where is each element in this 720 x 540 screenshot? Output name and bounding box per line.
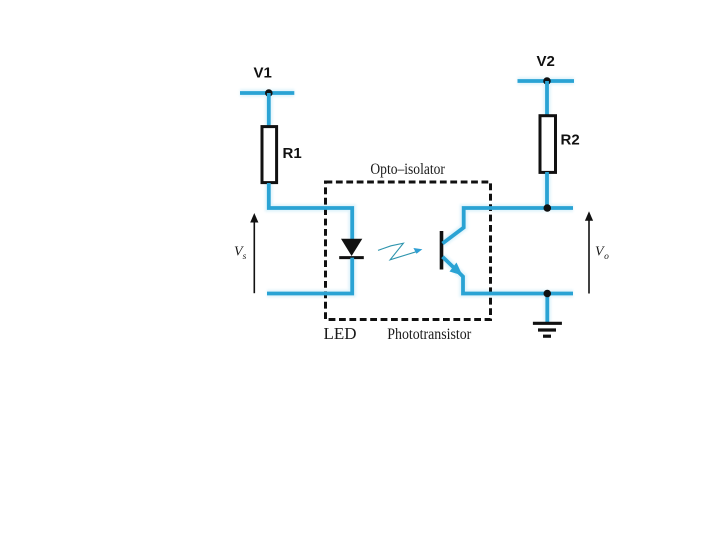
wire: R2 to collector node: [545, 172, 549, 208]
light squiggle arrow: [378, 243, 422, 260]
node: collector junction dot: [544, 204, 552, 212]
Vs arrow: [250, 213, 258, 293]
wire: V1 to R1: [267, 93, 271, 126]
phototransistor Q1 base bar: [440, 231, 444, 270]
wire: collector to output node: [443, 208, 574, 244]
resistor R1: [262, 127, 277, 183]
wire: V1 supply bar: [240, 91, 294, 95]
svg-text:V2: V2: [537, 53, 555, 70]
wire: V2 to R2: [545, 81, 549, 115]
opto-isolator box: [326, 182, 491, 320]
node: emitter junction dot: [544, 290, 552, 298]
svg-text:R2: R2: [561, 132, 580, 149]
emitter arrowhead: [450, 263, 463, 276]
V2 supply bar: [518, 79, 575, 83]
svg-text:Phototransistor: Phototransistor: [387, 326, 472, 343]
svg-text:V1: V1: [254, 65, 272, 82]
resistor R2: [540, 116, 556, 173]
ground: [533, 323, 562, 336]
wire glow underlay: [240, 81, 574, 322]
node: V1 junction dot: [265, 89, 273, 97]
wire: LED cathode return: [267, 258, 352, 294]
svg-text:LED: LED: [324, 324, 357, 343]
svg-text:Opto–isolator: Opto–isolator: [370, 161, 445, 178]
Vo arrow: [585, 211, 593, 293]
node: V2 junction dot: [543, 77, 551, 85]
LED D1: [339, 239, 364, 258]
svg-text:R1: R1: [283, 145, 302, 162]
wire: emitter to output node: [443, 257, 574, 294]
wire: R1 to LED anode: [269, 183, 352, 240]
wire: emitter node to ground: [545, 294, 549, 323]
